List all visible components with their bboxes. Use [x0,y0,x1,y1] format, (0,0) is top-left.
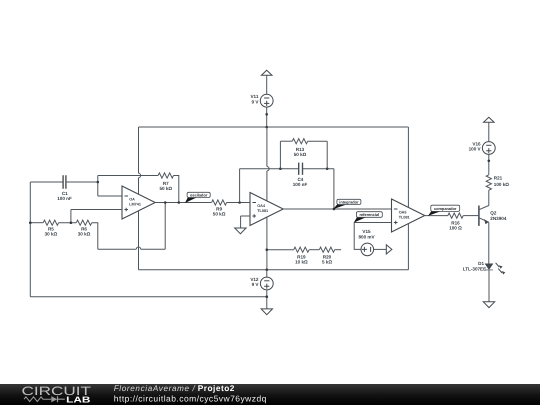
wire: riser to V15 [354,223,361,250]
svg-text:10 kΩ: 10 kΩ [295,260,308,265]
resistor R7 [158,173,173,178]
wire: R7 to output node [174,176,179,203]
svg-text:OA5: OA5 [399,210,407,214]
wire hop at supply pin crossing [136,247,140,249]
wire: OA4 feedback right riser [333,169,335,209]
wire: C1 right lead [66,181,98,183]
node: R13 right junction [326,167,329,170]
wire: C4 right lead [303,168,334,170]
net flag referencial [354,212,383,223]
svg-text:50 kΩ: 50 kΩ [294,152,307,157]
svg-text:FlorenciaAverame /: FlorenciaAverame / [114,384,198,393]
node: V11 / rail junction [265,126,268,129]
svg-text:TL081: TL081 [257,209,268,213]
wire: OA4 non-inverting input [241,215,250,217]
svg-text:oscilador: oscilador [190,193,208,198]
resistor R6 [76,220,91,225]
svg-text:LM741: LM741 [129,202,141,206]
wire: Q2 emitter to D1 [488,222,490,264]
svg-text:100 nF: 100 nF [293,182,308,187]
svg-text:OA: OA [129,197,135,201]
wire: negative supply rail [139,269,409,271]
op-amp OA5 TL081 symbol [392,199,425,232]
node: R5 / R6 tap [70,221,73,224]
svg-text:9 V: 9 V [252,282,260,287]
node: R19 tap on OA4 V- pin [266,248,269,251]
footer bar [0,383,540,405]
svg-text:30 kΩ: 30 kΩ [78,232,91,237]
LED D1 LTL-307EE [463,261,506,275]
wire: R16 to Q2 base [463,215,478,217]
svg-text:R21: R21 [494,176,503,181]
wire: V11 upper lead [266,75,268,94]
resistor R21 [486,175,491,190]
svg-text:integrador: integrador [339,200,359,205]
svg-text:100 nF: 100 nF [57,196,72,201]
resistor R16 [448,213,463,218]
svg-text:http://circuitlab.com/cyc5vw76: http://circuitlab.com/cyc5vw76ywzdq [114,394,267,404]
svg-text:comparador: comparador [434,206,457,211]
wire: OA5 output run [425,215,448,217]
wire: R21 to Q2 collector [488,190,490,205]
resistor R19 [294,247,309,252]
op-amp OA LM741 symbol [122,186,155,219]
wire: R20 open stub [335,249,341,251]
resistor R9 [212,200,227,205]
wire: V15 negative lead [374,248,387,250]
svg-text:5 kΩ: 5 kΩ [322,260,332,265]
node: feedback / integrator output junction [333,208,336,211]
svg-text:referencial: referencial [359,212,379,217]
resistor R13 [292,139,307,144]
svg-text:V16: V16 [472,141,481,146]
voltage source V11 9V [250,94,273,107]
wire hop at C4 wire crossing [267,167,269,171]
wire hop at feedback wire crossing [139,173,141,177]
wire: D1 cathode to ground [488,270,490,302]
node: output / R7 junction [178,201,181,204]
power flag above V11 [261,70,272,75]
svg-text:100 V: 100 V [469,147,482,152]
wire: OA5 non-inverting input [354,222,391,224]
svg-text:30 kΩ: 30 kΩ [45,232,58,237]
node: output / feedback junction [164,201,167,204]
wire: R13 right lead [308,140,328,142]
wire: R9 to OA4 inverting input [227,202,250,204]
svg-text:100 kΩ: 100 kΩ [494,182,509,187]
wire: lower feedback run (hop over supply pin) [98,248,165,250]
wire: feedback riser to OA output [164,203,166,250]
node: left bus / R5 [29,221,32,224]
wire: inverting-input stub of OA [98,176,122,197]
op-amp OA4 TL081 symbol [250,193,283,226]
wire: V16 lower lead [488,154,490,174]
wire: OA5 V+ supply pin [407,127,409,207]
svg-text:Projeto2: Projeto2 [198,383,235,393]
wire: OA4 ground stem [240,216,242,228]
wire: V12 upper lead [266,270,268,278]
node: C1 / R7 / OA inverting input junction [97,181,100,184]
wire: V16 upper lead [488,122,490,141]
wire: R13 right drop [326,141,328,169]
svg-text:9 V: 9 V [251,99,259,104]
wire: OA output run [155,202,211,204]
wire: bottom return to V12 ground node [30,296,266,298]
wire: R13 left lead [280,140,292,142]
node: OA4 inverting input junction [238,201,241,204]
wire: C4 left lead [240,168,299,170]
wire: non-inverting input of OA [71,209,122,211]
svg-text:100 Ω: 100 Ω [449,226,462,231]
ground at OA4 non-inverting input [235,228,246,234]
svg-text:V12: V12 [250,277,259,282]
ground below D1 [483,302,494,308]
net flag comparador [428,205,460,216]
wire: V12 lower lead [266,290,268,309]
wire: R6 to lower feedback run [92,223,98,250]
svg-text:D1: D1 [478,261,484,266]
wire: OA4 V+ supply pin (hop over C4 wire) [266,127,268,201]
node: V12 / rail junction [266,268,269,271]
capacitor C4 [299,163,303,175]
net flag oscilador [185,192,210,203]
svg-text:TL081: TL081 [399,215,410,219]
node: V11 pin [265,113,268,116]
wire: feedback top run to R7 [98,175,158,177]
wire: OA4 V- supply pin [266,217,268,270]
node: V12 / return wire junction [266,295,269,298]
voltage source V12 9V [250,277,273,290]
svg-text:LTL-307EE: LTL-307EE [463,266,486,271]
svg-text:50 kΩ: 50 kΩ [159,186,172,191]
svg-text:2N3904: 2N3904 [490,216,507,221]
resistor R5 [43,220,58,225]
svg-text:V11: V11 [250,94,258,99]
node: R13 left junction [279,167,282,170]
wire: OA5 V- supply pin [407,224,409,270]
wire: R13 left drop [279,141,281,169]
wire: OA V+ supply pin (hop over feedback wire) [138,127,140,194]
wire: V11 lower lead [266,107,268,127]
wire: riser from R5/R6 tap [70,210,72,223]
ground below V12 [261,309,272,315]
wire: R5-R6 link [59,222,77,224]
wire: OA4 feedback left riser [239,169,241,203]
svg-text:800 mV: 800 mV [358,234,375,239]
power flag above V16 [484,117,495,122]
wire: left vertical bus [29,182,31,297]
voltage source V16 100V [469,141,496,154]
transistor Q2 2N3904 [479,206,507,226]
net flag integrador [333,199,361,209]
svg-text:LAB: LAB [66,395,90,405]
ground (rotated) at V15 [386,245,392,254]
wire: positive supply rail [139,126,409,128]
capacitor C1 [63,175,66,188]
node: V16 pin [488,160,491,163]
wire: C1 left lead [30,181,63,183]
svg-text:OA4: OA4 [257,204,266,208]
resistor R20 [319,247,334,252]
wire: R5 left lead [30,222,43,224]
wire: supply pin to R19 [267,249,294,251]
wire: OA V- supply pin [138,211,140,270]
wire: integrator output run [283,208,391,210]
wire: R19-R20 link [309,249,319,251]
svg-text:50 kΩ: 50 kΩ [213,212,226,217]
voltage source V15 800mV [358,229,375,256]
